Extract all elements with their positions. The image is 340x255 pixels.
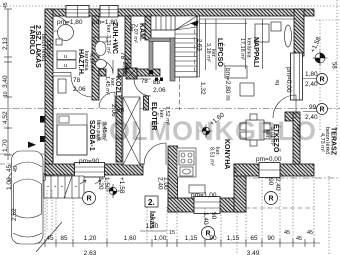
svg-text:4,52: 4,52 [2, 111, 9, 124]
svg-text:kerámia: kerámia [246, 38, 252, 59]
svg-text:1,00: 1,00 [154, 235, 167, 242]
svg-text:pm=1,00: pm=1,00 [191, 192, 217, 199]
svg-text:15: 15 [169, 230, 175, 236]
svg-text:+1,58: +1,58 [118, 177, 125, 194]
svg-text:KONYHA: KONYHA [223, 139, 230, 169]
svg-text:R: R [319, 77, 324, 84]
svg-text:2,40: 2,40 [305, 81, 318, 88]
svg-text:fix: fix [275, 79, 281, 85]
svg-text:JOLMONKGRLO: JOLMONKGRLO [93, 116, 317, 146]
svg-text:2,40: 2,40 [305, 114, 318, 121]
svg-text:2,07 m²: 2,07 m² [132, 24, 138, 43]
svg-text:5,10 m²: 5,10 m² [89, 53, 95, 72]
svg-text:2,13: 2,13 [2, 37, 9, 50]
svg-text:2,06: 2,06 [110, 104, 117, 117]
svg-text:45: 45 [46, 235, 54, 242]
svg-text:SZOBA-1: SZOBA-1 [88, 120, 95, 151]
svg-text:90: 90 [210, 212, 217, 220]
svg-text:45: 45 [296, 236, 302, 242]
svg-text:ZUH.+WC: ZUH.+WC [111, 22, 118, 54]
svg-text:2,40: 2,40 [274, 178, 281, 191]
svg-text:9,45 m²: 9,45 m² [101, 122, 107, 141]
svg-text:KAM.: KAM. [138, 23, 145, 41]
svg-text:85: 85 [60, 235, 68, 242]
svg-text:5,01 m²: 5,01 m² [269, 127, 275, 146]
svg-text:2,63: 2,63 [196, 39, 202, 51]
svg-text:1,45 m²: 1,45 m² [104, 76, 110, 95]
svg-text:58: 58 [331, 62, 337, 69]
svg-text:2,63: 2,63 [84, 250, 97, 255]
svg-text:90: 90 [209, 235, 217, 242]
svg-text:R: R [86, 196, 91, 203]
svg-text:1,15: 1,15 [185, 235, 198, 242]
svg-text:ker.: ker. [105, 25, 111, 34]
svg-text:pm=1,80: pm=1,80 [57, 19, 83, 26]
svg-text:7,52 m²: 7,52 m² [164, 106, 170, 125]
svg-text:pm=1,80: pm=1,80 [92, 19, 118, 26]
svg-text:1,20: 1,20 [84, 235, 97, 242]
svg-text:2,52: 2,52 [11, 208, 18, 221]
svg-text:45: 45 [307, 230, 313, 236]
svg-text:8,51 m²: 8,51 m² [209, 147, 215, 166]
svg-text:mo: mo [233, 167, 238, 174]
svg-text:1,60: 1,60 [124, 235, 137, 242]
svg-text:1,70: 1,70 [2, 139, 9, 152]
svg-text:pm=90: pm=90 [79, 158, 99, 165]
svg-text:+1,58: +1,58 [309, 36, 322, 54]
svg-text:65: 65 [250, 235, 258, 242]
svg-text:3,40: 3,40 [2, 75, 9, 88]
svg-text:3,49: 3,49 [247, 250, 260, 255]
svg-text:2,06: 2,06 [153, 87, 166, 94]
svg-text:45: 45 [3, 2, 9, 8]
svg-text:kerámia: kerámia [83, 51, 89, 72]
svg-text:u: u [64, 63, 67, 69]
svg-text:lam.park.: lam.park. [95, 120, 101, 143]
svg-text:1,32: 1,32 [199, 82, 206, 95]
svg-text:1,50: 1,50 [103, 177, 110, 190]
svg-text:4,73 m²: 4,73 m² [319, 133, 325, 152]
svg-text:2,40: 2,40 [157, 177, 164, 190]
svg-text:3,53 m²: 3,53 m² [45, 39, 51, 58]
svg-text:45: 45 [13, 166, 19, 172]
svg-text:45: 45 [284, 230, 290, 236]
svg-text:bm=2,80 m: bm=2,80 m [224, 68, 231, 101]
svg-text:R: R [268, 196, 273, 203]
svg-text:1,20: 1,20 [97, 177, 104, 190]
svg-text:ELŐTÉR: ELŐTÉR [150, 102, 159, 130]
svg-text:pm=0,00: pm=0,00 [285, 67, 292, 93]
svg-text:17,16 m²: 17,16 m² [239, 38, 245, 60]
svg-text:ker.: ker. [158, 110, 164, 119]
svg-text:78: 78 [73, 77, 81, 84]
svg-text:10: 10 [3, 91, 9, 97]
svg-text:88: 88 [117, 107, 125, 114]
svg-text:90: 90 [267, 235, 275, 242]
svg-text:LÉPCSŐ: LÉPCSŐ [216, 38, 225, 67]
svg-text:1,00: 1,00 [6, 177, 13, 190]
svg-text:99: 99 [309, 104, 317, 111]
svg-text:1,15: 1,15 [227, 235, 240, 242]
svg-text:u: u [64, 54, 67, 60]
svg-text:78: 78 [141, 79, 148, 85]
svg-text:2,06: 2,06 [73, 86, 86, 93]
svg-text:1,80: 1,80 [305, 71, 318, 78]
svg-text:90: 90 [267, 178, 274, 186]
svg-text:3,31 m²: 3,31 m² [105, 35, 111, 54]
svg-text:45: 45 [6, 164, 13, 172]
svg-text:1,40: 1,40 [202, 212, 209, 225]
svg-text:2,06: 2,06 [121, 62, 128, 75]
svg-text:NAPPALI: NAPPALI [252, 37, 259, 67]
svg-text:88: 88 [153, 79, 161, 86]
svg-text:pm=0,00: pm=0,00 [256, 156, 282, 163]
svg-text:2.: 2. [148, 198, 155, 207]
svg-text:1,30: 1,30 [146, 223, 159, 230]
svg-text:R: R [319, 107, 324, 114]
svg-text:3,18 m²: 3,18 m² [205, 43, 211, 62]
